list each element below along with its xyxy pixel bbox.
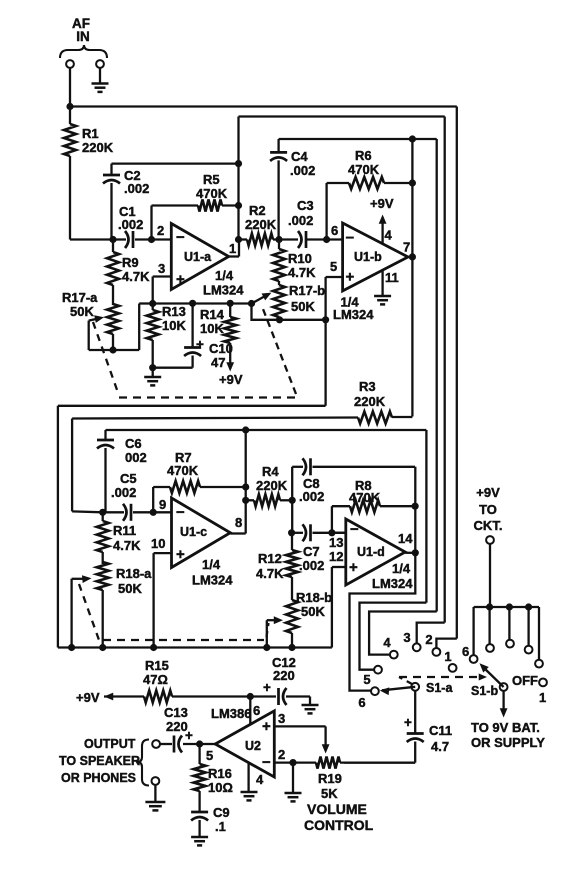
svg-text:7: 7 bbox=[403, 240, 410, 255]
svg-text:.1: .1 bbox=[215, 819, 226, 834]
svg-text:+9V: +9V bbox=[476, 485, 500, 500]
svg-text:R11: R11 bbox=[113, 523, 136, 538]
svg-text:+9V: +9V bbox=[76, 690, 100, 705]
svg-text:1/4: 1/4 bbox=[202, 557, 221, 572]
svg-text:+: + bbox=[176, 271, 185, 288]
svg-text:U1-b: U1-b bbox=[354, 250, 382, 264]
svg-text:3: 3 bbox=[403, 630, 410, 645]
svg-text:R17-b: R17-b bbox=[289, 283, 325, 298]
svg-text:470K: 470K bbox=[349, 490, 381, 505]
svg-text:2: 2 bbox=[425, 632, 432, 647]
svg-text:U1-a: U1-a bbox=[184, 250, 212, 264]
svg-text:R12: R12 bbox=[258, 551, 282, 566]
svg-text:+: + bbox=[263, 680, 271, 695]
svg-text:R4: R4 bbox=[262, 464, 279, 479]
svg-text:R1: R1 bbox=[82, 126, 99, 141]
svg-text:OFF: OFF bbox=[512, 673, 538, 688]
svg-text:.002: .002 bbox=[299, 489, 324, 504]
svg-text:−: − bbox=[262, 754, 271, 771]
svg-text:1/4: 1/4 bbox=[392, 561, 411, 576]
svg-text:1: 1 bbox=[539, 690, 546, 705]
svg-text:2: 2 bbox=[278, 747, 285, 762]
svg-text:R5: R5 bbox=[203, 172, 220, 187]
svg-text:5K: 5K bbox=[321, 786, 338, 801]
svg-text:LM324: LM324 bbox=[333, 307, 374, 322]
svg-text:.002: .002 bbox=[111, 485, 136, 500]
svg-text:R2: R2 bbox=[249, 203, 266, 218]
svg-text:6: 6 bbox=[253, 703, 260, 718]
svg-text:470K: 470K bbox=[167, 463, 199, 478]
svg-text:LM324: LM324 bbox=[372, 576, 413, 591]
svg-text:OUTPUT: OUTPUT bbox=[84, 737, 136, 751]
svg-text:1: 1 bbox=[444, 649, 451, 664]
svg-text:10K: 10K bbox=[200, 321, 224, 336]
svg-text:LM386: LM386 bbox=[211, 706, 251, 721]
svg-text:4.7K: 4.7K bbox=[113, 538, 141, 553]
svg-text:−: − bbox=[350, 521, 359, 538]
svg-text:3: 3 bbox=[278, 711, 285, 726]
svg-text:+: + bbox=[176, 546, 185, 563]
svg-text:002: 002 bbox=[125, 450, 147, 465]
svg-text:+9V: +9V bbox=[219, 372, 243, 387]
svg-text:47: 47 bbox=[211, 355, 225, 370]
svg-text:8: 8 bbox=[235, 515, 242, 530]
svg-text:U1-c: U1-c bbox=[180, 525, 207, 539]
svg-text:TO 9V BAT.: TO 9V BAT. bbox=[471, 720, 540, 735]
svg-text:S1-b: S1-b bbox=[471, 684, 498, 698]
svg-text:R16: R16 bbox=[208, 766, 232, 781]
svg-text:CONTROL: CONTROL bbox=[304, 817, 374, 833]
svg-text:47Ω: 47Ω bbox=[143, 672, 168, 687]
svg-text:.002: .002 bbox=[290, 163, 315, 178]
svg-text:R13: R13 bbox=[162, 304, 186, 319]
svg-text:R6: R6 bbox=[355, 148, 372, 163]
svg-text:+: + bbox=[404, 715, 412, 730]
svg-text:14: 14 bbox=[398, 531, 413, 546]
svg-text:6: 6 bbox=[462, 644, 469, 659]
svg-text:U2: U2 bbox=[245, 739, 261, 753]
svg-text:.002: .002 bbox=[288, 213, 313, 228]
svg-text:VOLUME: VOLUME bbox=[307, 801, 367, 817]
svg-text:2: 2 bbox=[157, 223, 164, 238]
svg-text:470K: 470K bbox=[196, 186, 228, 201]
svg-text:OR SUPPLY: OR SUPPLY bbox=[471, 735, 545, 750]
svg-text:C6: C6 bbox=[125, 436, 142, 451]
svg-text:R9: R9 bbox=[122, 255, 139, 270]
svg-text:11: 11 bbox=[385, 270, 399, 285]
svg-text:S1-a: S1-a bbox=[426, 681, 453, 695]
svg-text:R14: R14 bbox=[200, 307, 225, 322]
svg-text:470K: 470K bbox=[348, 162, 380, 177]
svg-text:TO SPEAKER: TO SPEAKER bbox=[59, 754, 140, 768]
svg-text:13: 13 bbox=[329, 535, 343, 550]
svg-text:220K: 220K bbox=[354, 394, 386, 409]
svg-text:OR PHONES: OR PHONES bbox=[61, 771, 136, 785]
svg-text:.002: .002 bbox=[124, 181, 149, 196]
svg-text:C11: C11 bbox=[429, 723, 452, 738]
svg-text:U1-d: U1-d bbox=[357, 545, 385, 559]
svg-text:220K: 220K bbox=[245, 217, 277, 232]
svg-text:LM324: LM324 bbox=[203, 283, 244, 298]
svg-text:4.7K: 4.7K bbox=[256, 566, 284, 581]
svg-text:10K: 10K bbox=[162, 318, 186, 333]
svg-text:50K: 50K bbox=[70, 304, 94, 319]
svg-text:IN: IN bbox=[76, 29, 90, 44]
svg-text:50K: 50K bbox=[118, 581, 142, 596]
svg-text:10: 10 bbox=[151, 536, 165, 551]
svg-text:+: + bbox=[262, 718, 271, 735]
svg-text:1/4: 1/4 bbox=[215, 268, 234, 283]
svg-text:.002: .002 bbox=[118, 217, 143, 232]
svg-text:4: 4 bbox=[383, 635, 391, 650]
svg-text:C13: C13 bbox=[164, 705, 188, 720]
svg-text:C4: C4 bbox=[291, 149, 308, 164]
svg-text:220K: 220K bbox=[256, 478, 288, 493]
svg-text:C3: C3 bbox=[297, 198, 314, 213]
svg-text:R19: R19 bbox=[318, 771, 342, 786]
svg-text:220: 220 bbox=[166, 719, 188, 734]
svg-text:+: + bbox=[346, 269, 355, 286]
svg-text:4.7: 4.7 bbox=[431, 739, 449, 754]
svg-text:10Ω: 10Ω bbox=[208, 780, 233, 795]
svg-text:−: − bbox=[346, 230, 355, 247]
svg-text:+: + bbox=[196, 337, 204, 352]
svg-text:5: 5 bbox=[363, 672, 370, 687]
svg-text:−: − bbox=[176, 504, 185, 521]
svg-text:220K: 220K bbox=[82, 140, 114, 155]
svg-text:C7: C7 bbox=[303, 544, 320, 559]
svg-text:C5: C5 bbox=[120, 471, 137, 486]
svg-text:R10: R10 bbox=[288, 251, 312, 266]
svg-text:6: 6 bbox=[331, 223, 338, 238]
svg-text:−: − bbox=[176, 229, 185, 246]
svg-text:4: 4 bbox=[256, 772, 264, 787]
svg-text:C9: C9 bbox=[213, 805, 230, 820]
svg-text:R17-a: R17-a bbox=[62, 290, 98, 305]
svg-text:1: 1 bbox=[229, 241, 236, 256]
svg-text:CKT.: CKT. bbox=[474, 518, 503, 533]
svg-text:4.7K: 4.7K bbox=[122, 269, 150, 284]
svg-text:.002: .002 bbox=[299, 558, 324, 573]
svg-text:3: 3 bbox=[158, 261, 165, 276]
svg-text:+: + bbox=[349, 559, 358, 576]
svg-text:5: 5 bbox=[330, 259, 337, 274]
svg-text:220: 220 bbox=[273, 668, 295, 683]
svg-text:R15: R15 bbox=[145, 658, 169, 673]
svg-text:LM324: LM324 bbox=[192, 572, 233, 587]
svg-text:6: 6 bbox=[358, 695, 365, 710]
svg-text:R3: R3 bbox=[359, 379, 376, 394]
svg-text:5: 5 bbox=[206, 748, 213, 763]
svg-text:50K: 50K bbox=[291, 299, 315, 314]
svg-text:9: 9 bbox=[159, 497, 166, 512]
svg-text:12: 12 bbox=[329, 549, 343, 564]
svg-text:50K: 50K bbox=[301, 604, 325, 619]
svg-text:4.7K: 4.7K bbox=[288, 265, 316, 280]
svg-text:+9V: +9V bbox=[370, 196, 394, 211]
svg-text:R18-a: R18-a bbox=[116, 566, 152, 581]
svg-text:TO: TO bbox=[479, 502, 497, 517]
svg-text:R18-b: R18-b bbox=[296, 590, 332, 605]
svg-text:4: 4 bbox=[385, 228, 393, 243]
